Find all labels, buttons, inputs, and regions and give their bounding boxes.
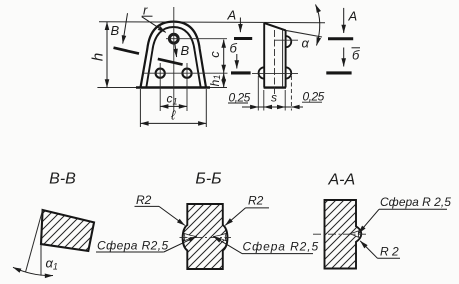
svg-text:h: h <box>89 53 106 61</box>
R 2 leader <box>360 241 377 258</box>
svg-text:Сфера R2,5: Сфера R2,5 <box>243 240 320 254</box>
dimension h line <box>106 22 108 88</box>
V-V vertical reference line <box>40 244 42 276</box>
section B(б) mark right: thick bar <box>326 71 351 74</box>
svg-text:В: В <box>111 23 120 38</box>
section mark B right: thick trace bar <box>158 59 183 65</box>
section A mark right: thick bar <box>328 37 353 40</box>
svg-text:0,25: 0,25 <box>303 90 325 104</box>
svg-text:б: б <box>230 41 238 56</box>
section B(б) mark left: arrow <box>236 54 238 69</box>
dimension h1 line <box>223 73 225 88</box>
side view centerline top hole <box>274 39 298 41</box>
section mark B left: arrow <box>123 13 128 43</box>
B-B sphere notch wedge right <box>213 233 226 241</box>
svg-text:r: r <box>143 3 148 18</box>
horizontal centerline lower holes <box>143 72 228 74</box>
lower hole right <box>182 69 191 78</box>
Sfera (A-A) leader <box>359 209 380 233</box>
svg-text:s: s <box>271 91 277 105</box>
slant extension to angle <box>286 30 322 37</box>
svg-text:А: А <box>227 8 237 23</box>
section B(б) mark left: thick bar <box>231 71 251 74</box>
svg-text:Сфера R2,5: Сфера R2,5 <box>97 239 169 253</box>
R2 right leader <box>225 208 245 226</box>
svg-text:R2: R2 <box>248 194 264 208</box>
side view right edge <box>285 30 287 87</box>
section B(б) mark right: arrow <box>343 48 345 67</box>
angle alpha arc <box>316 5 320 46</box>
front view: long top extension line <box>99 22 325 23</box>
side view centerline lower holes <box>252 72 298 74</box>
side view left edge <box>263 23 265 88</box>
front view bottom edge (thick) <box>136 86 210 89</box>
bottom edge thin extensions <box>97 87 136 89</box>
front view inner contour <box>146 27 200 88</box>
section A mark right: arrow <box>343 8 345 33</box>
svg-text:Сфера R 2,5: Сфера R 2,5 <box>380 195 451 209</box>
svg-text:0,25: 0,25 <box>229 91 251 105</box>
side view inner contour line <box>282 30 284 88</box>
vertical centerline hole left <box>159 63 161 111</box>
svg-text:h1: h1 <box>208 75 222 87</box>
svg-text:В-В: В-В <box>49 171 76 188</box>
R 2 underline <box>378 257 401 259</box>
section mark B left: thick trace bar <box>114 48 140 54</box>
side view middle centerline <box>274 30 276 96</box>
front view outer contour <box>141 22 207 88</box>
section A-A hatched bar with sphere bulge <box>325 200 362 269</box>
R2 right underline <box>246 207 270 209</box>
section B-B hatched bar with sphere bulges <box>183 204 228 269</box>
extension line bump apex left <box>257 76 259 111</box>
0,25 left underline <box>228 102 248 104</box>
dimension l extension right <box>205 89 207 127</box>
side view bottom edge <box>264 86 286 88</box>
sphere bump top right <box>286 36 292 47</box>
extension line right face <box>284 90 286 111</box>
dimension l line <box>140 122 206 124</box>
Sfera right leader <box>213 236 242 253</box>
section mark B right: arrow <box>175 45 177 58</box>
B-B sphere notch wedge left <box>184 233 197 241</box>
r underline <box>142 15 153 17</box>
svg-text:α: α <box>302 36 310 51</box>
section V-V hatched body <box>41 210 94 251</box>
vertical centerline hole right <box>186 63 188 111</box>
vertical centerline of part <box>173 7 175 112</box>
side view slanted top face <box>264 23 286 30</box>
section A mark left: arrow <box>239 18 241 33</box>
svg-text:б: б <box>352 48 360 63</box>
svg-text:А: А <box>348 9 358 24</box>
svg-text:Б-Б: Б-Б <box>195 171 221 188</box>
dim arrow 0,25 left <box>242 106 258 108</box>
extension line left face <box>263 90 265 111</box>
dimension c1 line <box>160 105 187 107</box>
V-V inclined face extension line <box>26 210 43 272</box>
A-A centerline <box>313 233 367 235</box>
section A mark left: thick bar <box>234 37 252 40</box>
extension line bump apex right <box>290 76 292 111</box>
0,25 right underline <box>302 101 322 103</box>
svg-text:А-А: А-А <box>327 172 355 189</box>
horizontal centerline top hole <box>166 38 227 40</box>
dim line connector segments <box>258 106 264 108</box>
r leader arrow <box>142 17 166 33</box>
dimension l extension left <box>139 89 141 127</box>
Sfera (A-A) underline <box>379 208 447 210</box>
svg-text:R 2: R 2 <box>380 245 399 259</box>
Sfera left leader <box>164 236 197 252</box>
svg-text:c: c <box>207 51 222 58</box>
sphere bump lower left <box>259 67 265 78</box>
lower hole left <box>156 69 165 78</box>
dim arrow 0,25 right <box>291 106 303 108</box>
R2 left leader <box>159 206 185 225</box>
dim s line <box>264 106 285 108</box>
svg-text:c1: c1 <box>167 92 178 107</box>
section B(б) mark right: overline <box>352 47 361 49</box>
svg-text:В: В <box>181 43 190 58</box>
dimension c line <box>223 40 225 73</box>
B-B centerline <box>180 237 232 239</box>
Sfera right underline <box>242 253 313 255</box>
svg-text:ℓ: ℓ <box>171 108 176 123</box>
R2 left underline <box>135 205 160 207</box>
top hole (heavy ring) <box>169 34 178 43</box>
sphere bump lower right <box>286 67 292 78</box>
svg-text:R2: R2 <box>136 193 152 207</box>
angle alpha1 arc <box>13 267 53 275</box>
svg-text:α1: α1 <box>46 256 58 272</box>
Sfera left underline <box>96 251 164 253</box>
A-A sphere notch wedge <box>350 231 359 238</box>
